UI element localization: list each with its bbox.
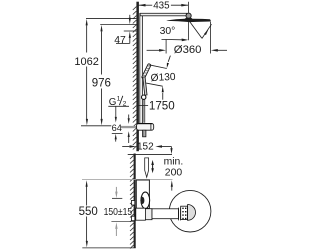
svg-text:152: 152 <box>137 142 154 153</box>
svg-text:1: 1 <box>117 95 121 102</box>
svg-text:435: 435 <box>153 1 170 12</box>
svg-text:64: 64 <box>112 123 122 133</box>
svg-text:min.: min. <box>164 157 184 168</box>
svg-text:1062: 1062 <box>74 56 98 68</box>
svg-text:Ø130: Ø130 <box>150 72 176 84</box>
svg-text:200: 200 <box>165 168 183 179</box>
svg-text:Ø360: Ø360 <box>174 44 202 56</box>
svg-text:150±15: 150±15 <box>104 207 133 218</box>
svg-text:976: 976 <box>92 78 111 90</box>
svg-text:47: 47 <box>114 35 126 46</box>
svg-text:1750: 1750 <box>149 100 175 113</box>
svg-text:30°: 30° <box>160 26 176 37</box>
svg-text:550: 550 <box>79 206 98 218</box>
